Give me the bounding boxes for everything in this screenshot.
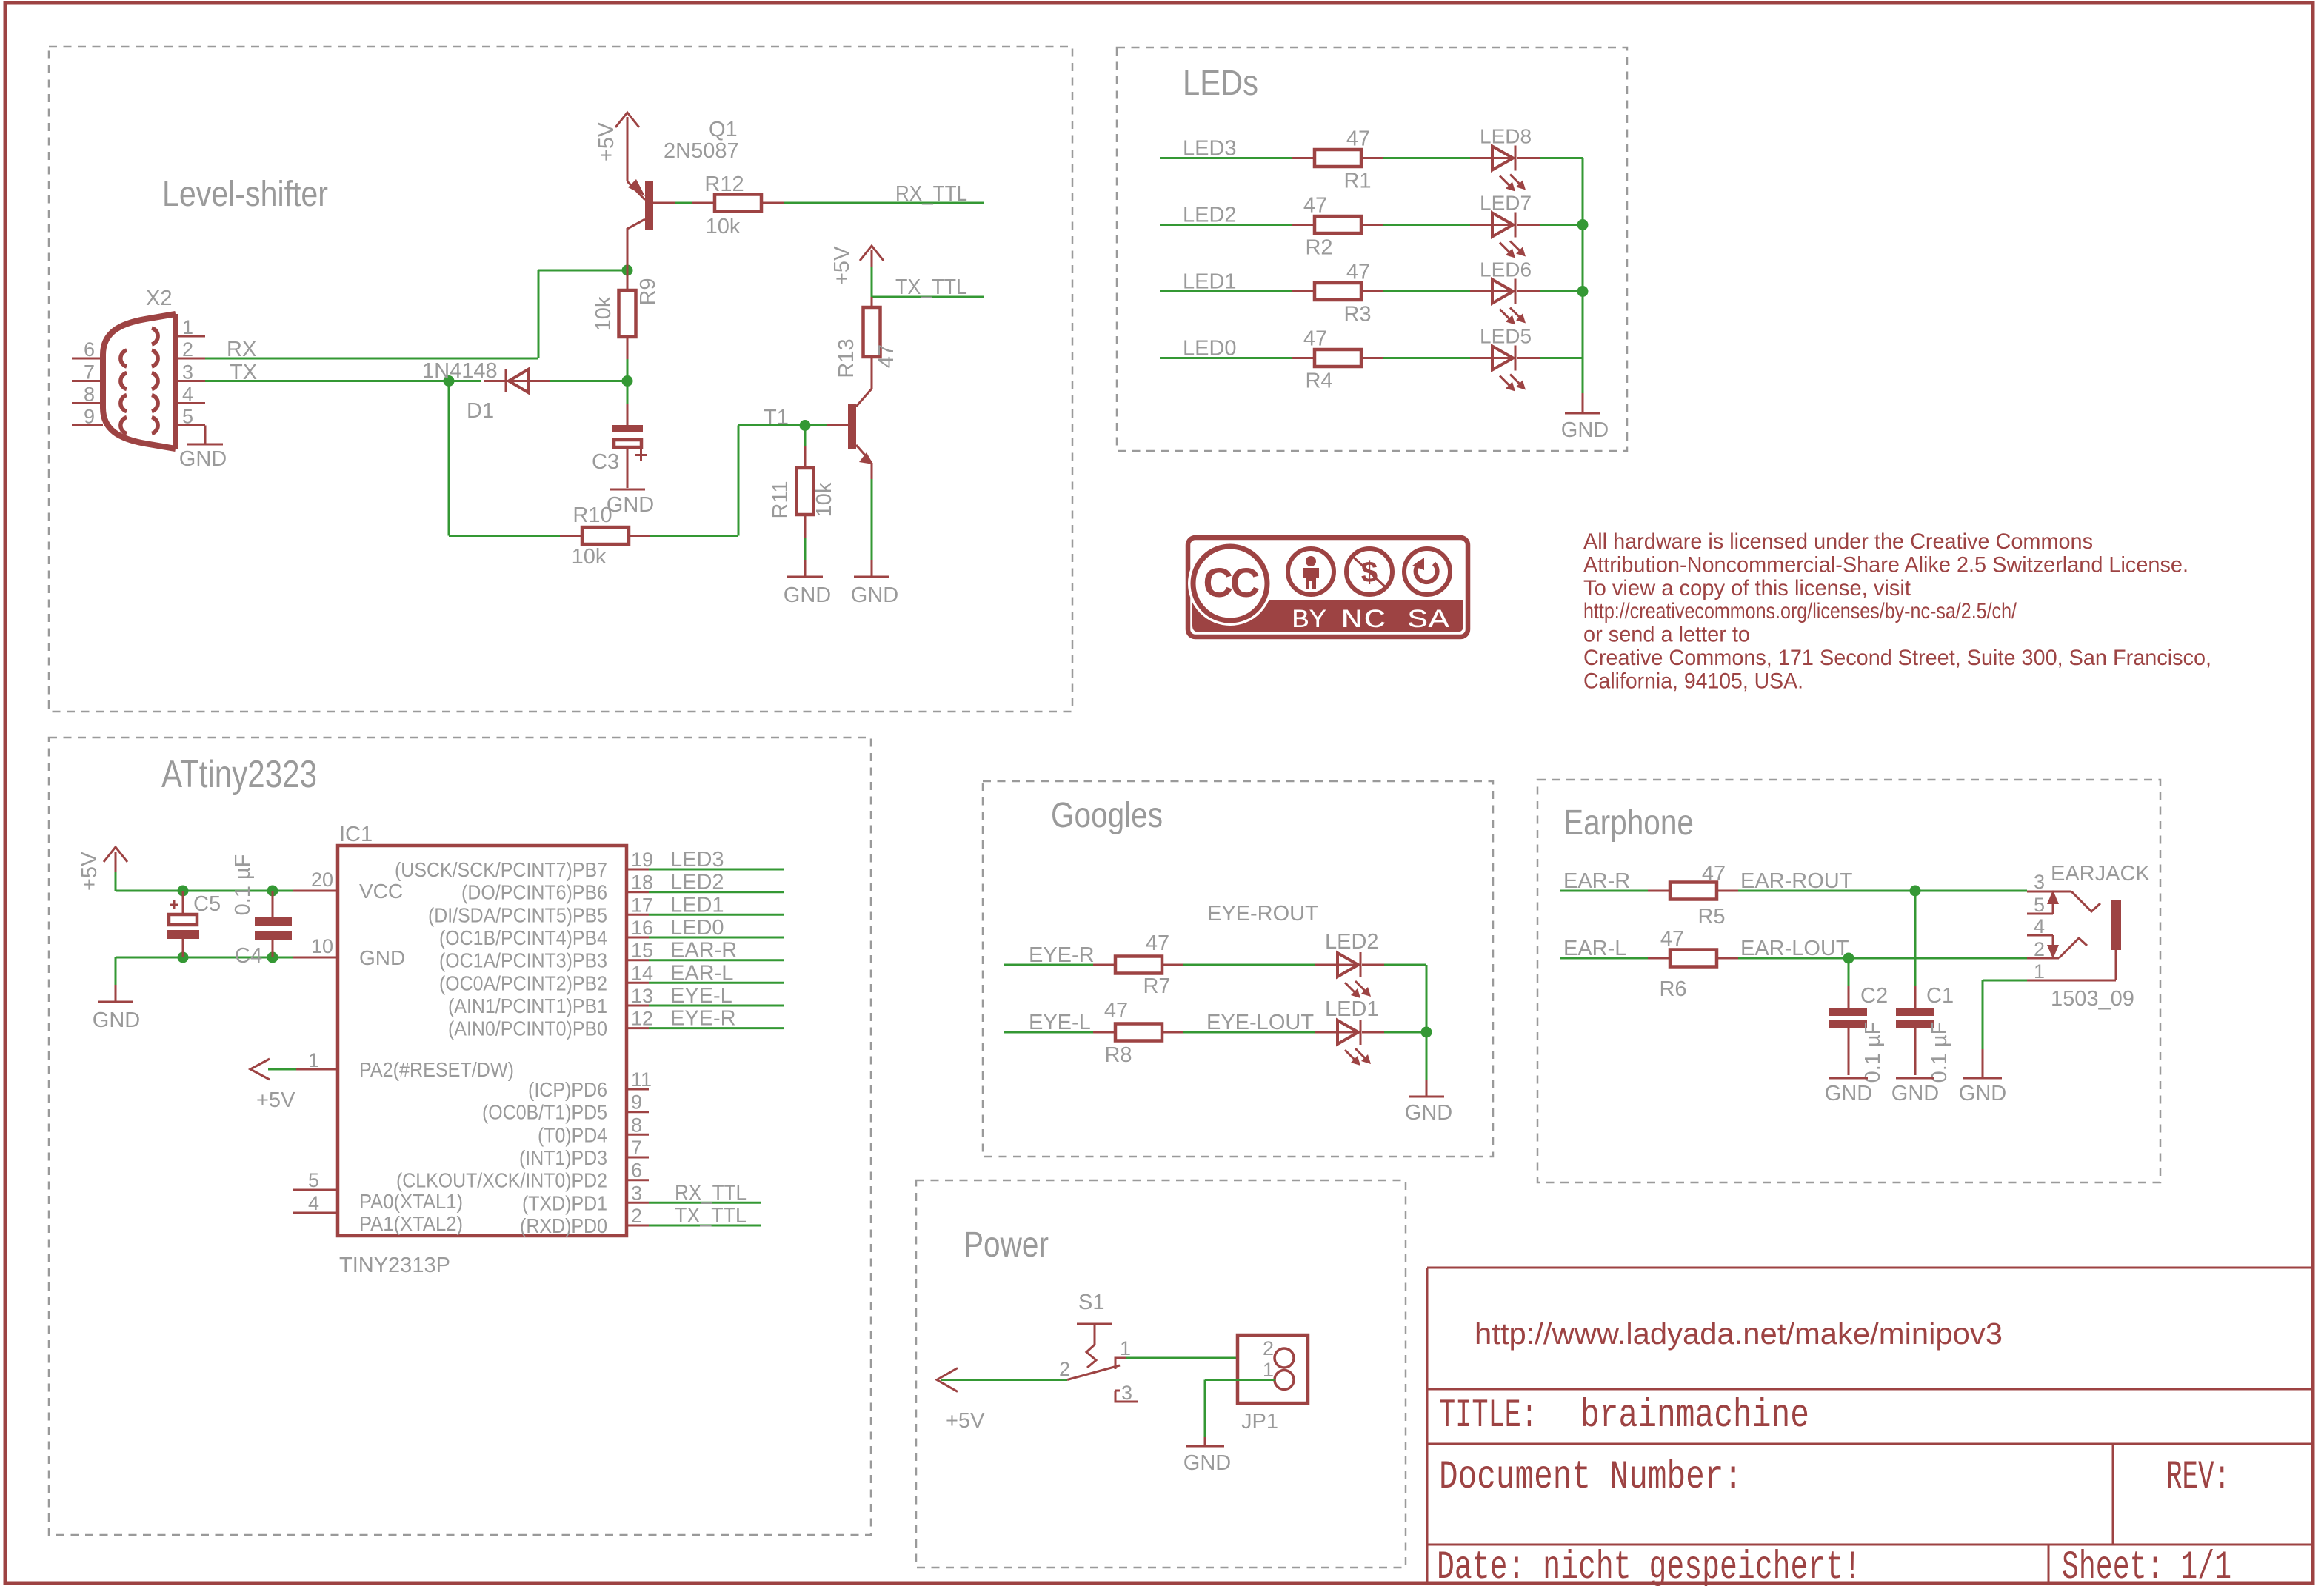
resistor R10 10k bbox=[560, 504, 650, 569]
svg-text:LED0: LED0 bbox=[1183, 337, 1237, 361]
diode D1 1N4148 bbox=[422, 359, 550, 423]
svg-text:All hardware is licensed under: All hardware is licensed under the Creat… bbox=[1583, 529, 2093, 554]
LEDs ground bbox=[1561, 393, 1609, 442]
svg-text:EAR-LOUT: EAR-LOUT bbox=[1740, 937, 1849, 960]
IC1 pin 16 (OC1B/PCINT4)PB4 bbox=[439, 916, 784, 949]
svg-text:19: 19 bbox=[631, 849, 653, 871]
svg-text:1: 1 bbox=[1263, 1359, 1274, 1381]
svg-text:LED5: LED5 bbox=[1480, 325, 1532, 348]
Creative Commons BY-NC-SA logo bbox=[1188, 538, 1468, 637]
svg-text:9: 9 bbox=[631, 1091, 642, 1114]
svg-text:RX: RX bbox=[227, 338, 256, 361]
svg-text:(CLKOUT/XCK/INT0)PD2: (CLKOUT/XCK/INT0)PD2 bbox=[396, 1169, 607, 1192]
svg-text:LED2: LED2 bbox=[1325, 930, 1379, 954]
googles ground bbox=[1405, 1032, 1452, 1125]
power +5V arrow ATtiny bbox=[78, 847, 127, 891]
svg-text:+5V: +5V bbox=[256, 1088, 295, 1112]
power +5V arrow T1 bbox=[830, 246, 884, 297]
earjack ground bbox=[1959, 1049, 2006, 1105]
svg-text:10: 10 bbox=[311, 935, 333, 957]
svg-text:EYE-R: EYE-R bbox=[670, 1007, 736, 1031]
svg-text:EYE-LOUT: EYE-LOUT bbox=[1206, 1011, 1314, 1034]
power +5V arrow bbox=[937, 1368, 1067, 1434]
svg-text:(OC1A/PCINT3)PB3: (OC1A/PCINT3)PB3 bbox=[439, 949, 607, 972]
svg-text:47: 47 bbox=[1303, 194, 1327, 218]
Level-shifter section dashed box bbox=[49, 47, 1072, 712]
resistor R4 47 bbox=[1292, 327, 1383, 393]
connector EARJACK 1503_09 bbox=[2027, 862, 2150, 1011]
svg-text:17: 17 bbox=[631, 894, 653, 916]
connector X2 DB9 bbox=[72, 287, 205, 449]
svg-text:R4: R4 bbox=[1305, 369, 1332, 393]
junction node C4 top bbox=[267, 886, 278, 897]
svg-text:C5: C5 bbox=[193, 892, 221, 916]
resistor R13 47 bbox=[835, 297, 898, 379]
svg-text:Creative Commons, 171 Second S: Creative Commons, 171 Second Street, Sui… bbox=[1583, 646, 2211, 670]
svg-text:0.1 µF: 0.1 µF bbox=[231, 854, 255, 916]
svg-text:TX_TTL: TX_TTL bbox=[895, 275, 967, 299]
LED1 bbox=[1315, 997, 1384, 1066]
svg-text:9: 9 bbox=[84, 406, 95, 428]
resistor R9 10k bbox=[592, 278, 660, 359]
title block REV bbox=[2166, 1455, 2230, 1500]
svg-text:(USCK/SCK/PCINT7)PB7: (USCK/SCK/PCINT7)PB7 bbox=[395, 858, 607, 881]
svg-text:T1: T1 bbox=[764, 406, 789, 429]
LED LED8 bbox=[1470, 125, 1540, 192]
svg-text:GND: GND bbox=[1959, 1082, 2006, 1105]
LED LED5 bbox=[1470, 325, 1540, 392]
svg-text:LED1: LED1 bbox=[1325, 997, 1379, 1021]
svg-text:2: 2 bbox=[182, 338, 193, 361]
svg-text:Googles: Googles bbox=[1051, 796, 1163, 835]
resistor R11 10k bbox=[769, 426, 836, 561]
wire D1 to R9 node bbox=[550, 380, 627, 382]
wire EYE-R net bbox=[1004, 964, 1315, 966]
IC1 pin 19 (USCK/SCK/PCINT7)PB7 bbox=[395, 848, 784, 881]
svg-text:R7: R7 bbox=[1143, 974, 1170, 998]
wire JP1 pin1 to gnd bbox=[1205, 1380, 1275, 1438]
IC1 pin 15 (OC1A/PCINT3)PB3 bbox=[439, 939, 784, 972]
svg-text:LED1: LED1 bbox=[1183, 270, 1237, 294]
svg-text:4: 4 bbox=[182, 384, 193, 406]
svg-text:7: 7 bbox=[631, 1137, 642, 1159]
junction node LED6 bus bbox=[1577, 286, 1589, 297]
IC1 pin 5 PA0 bbox=[293, 1169, 463, 1213]
power +5V arrow Q1 bbox=[595, 113, 639, 161]
wire GND rail bbox=[116, 957, 338, 985]
section title Googles bbox=[1051, 796, 1163, 835]
X2 pin5 ground bbox=[179, 426, 227, 472]
svg-text:+5V: +5V bbox=[830, 246, 854, 285]
svg-text:EYE-L: EYE-L bbox=[670, 984, 732, 1008]
C3 ground bbox=[607, 447, 654, 517]
IC1 pin 11 (ICP)PD6 bbox=[528, 1068, 652, 1101]
svg-text:R12: R12 bbox=[704, 173, 744, 196]
IC1 pin 20 VCC bbox=[311, 869, 403, 903]
svg-text:TITLE:: TITLE: bbox=[1439, 1394, 1537, 1439]
svg-text:2: 2 bbox=[631, 1205, 642, 1227]
svg-text:RX_TTL: RX_TTL bbox=[895, 182, 967, 206]
svg-text:TX_TTL: TX_TTL bbox=[675, 1204, 747, 1228]
svg-text:GND: GND bbox=[359, 946, 405, 969]
net label EYE-R bbox=[1029, 943, 1095, 967]
junction node C5 bottom bbox=[178, 952, 189, 963]
svg-text:GND: GND bbox=[607, 493, 654, 517]
svg-text:5: 5 bbox=[182, 406, 193, 428]
section title Earphone bbox=[1563, 803, 1694, 843]
IC1 pin 13 (AIN1/PCINT1)PB1 bbox=[448, 984, 784, 1017]
R11 ground bbox=[784, 560, 831, 607]
svg-text:LED3: LED3 bbox=[1183, 137, 1237, 161]
svg-text:(DO/PCINT6)PB6: (DO/PCINT6)PB6 bbox=[461, 881, 607, 904]
capacitor C4 bbox=[231, 854, 292, 968]
svg-text:LED0: LED0 bbox=[670, 916, 724, 940]
svg-text:47: 47 bbox=[1146, 931, 1169, 955]
title block URL bbox=[1475, 1317, 2003, 1351]
svg-text:6: 6 bbox=[84, 338, 95, 361]
power ground bbox=[1183, 1437, 1231, 1475]
IC1 pin 10 GND bbox=[311, 935, 405, 969]
junction node C2 top bbox=[1843, 953, 1854, 964]
svg-text:(DI/SDA/PCINT5)PB5: (DI/SDA/PCINT5)PB5 bbox=[428, 903, 607, 926]
svg-text:EARJACK: EARJACK bbox=[2051, 862, 2150, 886]
svg-text:2: 2 bbox=[2034, 938, 2045, 960]
svg-text:C1: C1 bbox=[1926, 984, 1954, 1008]
junction node googles gnd bbox=[1421, 1027, 1432, 1038]
resistor R3 47 bbox=[1292, 261, 1383, 327]
resistor R1 47 bbox=[1292, 127, 1383, 193]
svg-text:1: 1 bbox=[182, 316, 193, 338]
capacitor C5 bbox=[167, 891, 221, 957]
capacitor C2 bbox=[1829, 958, 1888, 1083]
svg-text:LED7: LED7 bbox=[1480, 192, 1532, 215]
title block Date row bbox=[1437, 1545, 1861, 1589]
svg-text:http://www.ladyada.net/make/mi: http://www.ladyada.net/make/minipov3 bbox=[1475, 1317, 2003, 1351]
junction node LED7 bus bbox=[1577, 219, 1589, 230]
junction node TX-D1 bbox=[444, 375, 455, 387]
net label RX_TTL bbox=[895, 182, 967, 206]
net label EAR-R bbox=[1563, 869, 1630, 893]
LED LED7 bbox=[1470, 192, 1540, 258]
svg-text:7: 7 bbox=[84, 361, 95, 384]
net label LED0 bbox=[1183, 337, 1237, 361]
capacitor C3 bbox=[592, 381, 647, 475]
svg-text:+5V: +5V bbox=[78, 852, 101, 891]
transistor T1 bbox=[764, 379, 873, 464]
svg-text:LED8: LED8 bbox=[1480, 125, 1532, 148]
svg-text:1: 1 bbox=[2034, 960, 2045, 983]
license text block bbox=[1583, 529, 2211, 693]
svg-text:(TXD)PD1: (TXD)PD1 bbox=[522, 1191, 607, 1214]
svg-text:12: 12 bbox=[631, 1008, 653, 1030]
IC1 pin 7 (INT1)PD3 bbox=[519, 1137, 649, 1169]
net label TX bbox=[230, 361, 257, 384]
IC1 pin 8 (T0)PD4 bbox=[538, 1114, 649, 1146]
svg-text:To view a copy of this license: To view a copy of this license, visit bbox=[1583, 576, 1911, 601]
wire LED1 to junction bbox=[1384, 1031, 1426, 1034]
svg-text:SA: SA bbox=[1407, 606, 1449, 635]
svg-text:CC: CC bbox=[1203, 559, 1259, 606]
svg-text:47: 47 bbox=[1702, 862, 1726, 886]
svg-text:R5: R5 bbox=[1697, 905, 1725, 929]
junction node T1 base bbox=[800, 420, 811, 431]
svg-text:JP1: JP1 bbox=[1241, 1410, 1278, 1434]
svg-text:PA0(XTAL1): PA0(XTAL1) bbox=[359, 1190, 463, 1213]
svg-text:EAR-L: EAR-L bbox=[1563, 937, 1626, 960]
svg-text:10k: 10k bbox=[812, 482, 836, 517]
svg-text:(AIN1/PCINT1)PB1: (AIN1/PCINT1)PB1 bbox=[448, 994, 607, 1017]
svg-text:5: 5 bbox=[308, 1169, 319, 1191]
svg-text:3: 3 bbox=[1121, 1382, 1132, 1404]
net label TX_TTL bbox=[895, 275, 967, 299]
net label RX bbox=[227, 338, 256, 361]
Earphone section dashed box bbox=[1537, 780, 2160, 1182]
svg-text:10k: 10k bbox=[706, 215, 741, 238]
svg-text:PA2(#RESET/DW): PA2(#RESET/DW) bbox=[359, 1058, 514, 1081]
svg-text:ATtiny2323: ATtiny2323 bbox=[161, 753, 317, 796]
svg-text:Earphone: Earphone bbox=[1563, 803, 1694, 843]
wire R10 to T1 base bbox=[650, 426, 805, 536]
Googles section dashed box bbox=[983, 781, 1493, 1157]
svg-text:GND: GND bbox=[784, 583, 831, 607]
LED2 bbox=[1315, 930, 1384, 998]
svg-text:47: 47 bbox=[1104, 999, 1128, 1023]
svg-text:10k: 10k bbox=[592, 296, 615, 331]
net label LED1 bbox=[1183, 270, 1237, 294]
T1 emitter ground bbox=[851, 463, 898, 607]
svg-text:GND: GND bbox=[1891, 1082, 1939, 1105]
svg-text:2N5087: 2N5087 bbox=[664, 139, 739, 163]
svg-text:15: 15 bbox=[631, 940, 653, 962]
svg-text:+5V: +5V bbox=[946, 1409, 985, 1433]
svg-text:20: 20 bbox=[311, 869, 333, 891]
svg-text:10k: 10k bbox=[572, 545, 607, 569]
svg-text:+5V: +5V bbox=[595, 122, 618, 161]
IC1 TINY2313P box bbox=[338, 823, 627, 1277]
wire EYE-L net bbox=[1004, 1031, 1315, 1034]
svg-text:Document Number:: Document Number: bbox=[1439, 1455, 1743, 1500]
svg-text:EYE-ROUT: EYE-ROUT bbox=[1207, 902, 1318, 926]
svg-text:GND: GND bbox=[93, 1008, 140, 1032]
svg-text:EAR-R: EAR-R bbox=[670, 939, 737, 963]
junction node C4 bottom bbox=[267, 952, 278, 963]
svg-text:18: 18 bbox=[631, 872, 653, 894]
svg-text:47: 47 bbox=[1346, 127, 1370, 151]
svg-text:3: 3 bbox=[631, 1182, 642, 1204]
resistor R6 47 bbox=[1648, 927, 1738, 1001]
resistor R12 10k bbox=[692, 173, 784, 238]
svg-text:4: 4 bbox=[2034, 915, 2045, 937]
svg-text:brainmachine: brainmachine bbox=[1580, 1394, 1809, 1439]
svg-text:47: 47 bbox=[1303, 327, 1327, 351]
net label EAR-LOUT bbox=[1740, 937, 1849, 960]
wire VCC rail bbox=[116, 890, 338, 892]
wire net LED1 bbox=[1160, 290, 1583, 292]
svg-text:16: 16 bbox=[631, 917, 653, 939]
ATtiny2323 section dashed box bbox=[49, 737, 871, 1535]
svg-text:PA1(XTAL2): PA1(XTAL2) bbox=[359, 1212, 463, 1235]
svg-text:R13: R13 bbox=[835, 338, 858, 378]
svg-text:R9: R9 bbox=[636, 278, 660, 305]
wire net LED2 bbox=[1160, 224, 1583, 226]
svg-text:GND: GND bbox=[1183, 1451, 1231, 1475]
svg-text:http://creativecommons.org/lic: http://creativecommons.org/licenses/by-n… bbox=[1583, 599, 2017, 623]
wire net LED0 bbox=[1160, 357, 1583, 359]
svg-text:3: 3 bbox=[2034, 871, 2045, 893]
svg-text:GND: GND bbox=[1825, 1082, 1872, 1105]
IC1 pin 12 (AIN0/PCINT0)PB0 bbox=[448, 1007, 784, 1040]
transistor Q1 2N5087 bbox=[627, 117, 739, 290]
svg-text:(INT1)PD3: (INT1)PD3 bbox=[519, 1146, 607, 1169]
svg-text:R2: R2 bbox=[1305, 236, 1332, 260]
svg-text:REV:: REV: bbox=[2166, 1455, 2230, 1500]
junction node C5 top bbox=[178, 886, 189, 897]
svg-text:X2: X2 bbox=[146, 287, 172, 310]
X2 pin numbers right 1-5 bbox=[182, 316, 193, 428]
title block Document Number row bbox=[1439, 1455, 1743, 1500]
svg-text:Sheet: 1/1: Sheet: 1/1 bbox=[2062, 1545, 2231, 1589]
wire net LED3 bbox=[1160, 157, 1583, 159]
svg-text:(T0)PD4: (T0)PD4 bbox=[538, 1123, 607, 1146]
svg-text:LED2: LED2 bbox=[1183, 204, 1237, 227]
wire LED common bus bbox=[1582, 158, 1584, 394]
resistor R2 47 bbox=[1292, 194, 1383, 260]
wire EAR-L net bbox=[1560, 957, 2027, 960]
svg-text:(OC1B/PCINT4)PB4: (OC1B/PCINT4)PB4 bbox=[439, 926, 607, 949]
svg-text:C3: C3 bbox=[592, 450, 619, 474]
section title Power bbox=[964, 1225, 1049, 1265]
svg-text:California, 94105, USA.: California, 94105, USA. bbox=[1583, 669, 1803, 693]
svg-text:Power: Power bbox=[964, 1225, 1049, 1265]
connector JP1 bbox=[1238, 1335, 1308, 1434]
svg-text:8: 8 bbox=[84, 384, 95, 406]
svg-text:TINY2313P: TINY2313P bbox=[339, 1254, 450, 1277]
svg-text:0.1 µF: 0.1 µF bbox=[1928, 1022, 1951, 1083]
svg-text:2: 2 bbox=[1059, 1358, 1070, 1380]
svg-text:LED3: LED3 bbox=[670, 848, 724, 872]
switch S1 bbox=[1059, 1291, 1138, 1404]
svg-text:EAR-L: EAR-L bbox=[670, 961, 733, 985]
title block Sheet bbox=[2062, 1545, 2231, 1589]
svg-text:2: 2 bbox=[1263, 1337, 1274, 1359]
svg-text:TX: TX bbox=[230, 361, 257, 384]
wire R9 to TX node bbox=[627, 359, 629, 381]
resistor R8 47 bbox=[1093, 999, 1183, 1067]
resistor R5 47 bbox=[1648, 862, 1738, 929]
net label LED2 bbox=[1183, 204, 1237, 227]
net label EAR-L bbox=[1563, 937, 1626, 960]
svg-text:0.1 µF: 0.1 µF bbox=[1861, 1022, 1885, 1083]
svg-text:RX_TTL: RX_TTL bbox=[675, 1181, 747, 1205]
svg-text:D1: D1 bbox=[467, 399, 494, 423]
wire LED2 to bus bbox=[1384, 965, 1426, 1032]
wire RX net bbox=[205, 270, 622, 358]
IC1 pin 14 (OC0A/PCINT2)PB2 bbox=[439, 961, 784, 994]
IC1 pin 9 (OC0B/T1)PD5 bbox=[482, 1091, 649, 1124]
wire EAR-R net bbox=[1560, 890, 2027, 892]
svg-text:EAR-R: EAR-R bbox=[1563, 869, 1630, 893]
svg-text:C4: C4 bbox=[235, 944, 262, 968]
svg-text:47: 47 bbox=[875, 344, 898, 368]
svg-text:NC: NC bbox=[1340, 606, 1386, 635]
svg-text:13: 13 bbox=[631, 985, 653, 1007]
svg-text:14: 14 bbox=[631, 962, 653, 984]
svg-text:GND: GND bbox=[1561, 418, 1609, 442]
svg-text:47: 47 bbox=[1660, 927, 1684, 951]
svg-text:Attribution-Noncommercial-Shar: Attribution-Noncommercial-Share Alike 2.… bbox=[1583, 552, 2188, 577]
title block TITLE row bbox=[1439, 1394, 1809, 1439]
IC1 pin 17 (DI/SDA/PCINT5)PB5 bbox=[428, 893, 784, 926]
junction node C3 top bbox=[622, 375, 633, 387]
svg-text:EYE-L: EYE-L bbox=[1029, 1011, 1091, 1034]
svg-text:R3: R3 bbox=[1343, 303, 1371, 327]
section title LEDs bbox=[1183, 64, 1258, 103]
junction node R9 top bbox=[622, 265, 633, 276]
junction node C1 top bbox=[1910, 886, 1921, 897]
svg-text:GND: GND bbox=[1405, 1101, 1452, 1125]
ATtiny ground symbol bbox=[93, 985, 140, 1032]
Power section dashed box bbox=[916, 1180, 1406, 1568]
IC1 pin 3 (TXD)PD1 bbox=[522, 1181, 761, 1214]
svg-text:(ICP)PD6: (ICP)PD6 bbox=[528, 1078, 607, 1101]
svg-text:S1: S1 bbox=[1078, 1291, 1104, 1314]
resistor R7 47 bbox=[1093, 931, 1183, 998]
IC1 pin 1 PA2 reset bbox=[250, 1049, 514, 1112]
LED LED6 bbox=[1470, 258, 1540, 325]
svg-text:8: 8 bbox=[631, 1114, 642, 1136]
wire TX junction to R10 bbox=[449, 381, 560, 536]
IC1 pin 18 (DO/PCINT6)PB6 bbox=[461, 871, 784, 904]
svg-text:(OC0B/T1)PD5: (OC0B/T1)PD5 bbox=[482, 1101, 607, 1124]
svg-text:LEDs: LEDs bbox=[1183, 64, 1258, 103]
C1 ground bbox=[1891, 1078, 1939, 1105]
net label LED3 bbox=[1183, 137, 1237, 161]
svg-text:R8: R8 bbox=[1104, 1043, 1132, 1067]
wire TX_TTL bbox=[872, 296, 984, 298]
svg-text:EYE-R: EYE-R bbox=[1029, 943, 1095, 967]
LEDs section dashed box bbox=[1117, 47, 1627, 451]
svg-text:11: 11 bbox=[631, 1068, 652, 1091]
svg-text:LED2: LED2 bbox=[670, 871, 724, 894]
svg-text:1503_09: 1503_09 bbox=[2051, 987, 2134, 1011]
svg-text:1: 1 bbox=[308, 1049, 319, 1071]
wire earjack sleeve to gnd bbox=[1983, 980, 2027, 1049]
wire S1 to JP1 bbox=[1126, 1357, 1275, 1359]
svg-text:47: 47 bbox=[1346, 261, 1370, 284]
IC1 pin 6 (CLKOUT/XCK/INT0)PD2 bbox=[396, 1160, 649, 1192]
svg-text:3: 3 bbox=[182, 361, 193, 384]
net label EYE-ROUT bbox=[1207, 902, 1318, 926]
IC1 pin 4 PA1 bbox=[293, 1192, 463, 1235]
wire TX net bbox=[205, 380, 481, 382]
net label EAR-ROUT bbox=[1740, 869, 1853, 893]
svg-text:LED6: LED6 bbox=[1480, 258, 1532, 281]
svg-text:(AIN0/PCINT0)PB0: (AIN0/PCINT0)PB0 bbox=[448, 1017, 607, 1040]
IC1 pin 2 (RXD)PD0 bbox=[520, 1204, 761, 1237]
svg-text:(OC0A/PCINT2)PB2: (OC0A/PCINT2)PB2 bbox=[439, 971, 607, 994]
wire base junction bbox=[805, 424, 827, 426]
net label EYE-LOUT bbox=[1206, 1011, 1314, 1034]
svg-text:R11: R11 bbox=[769, 481, 792, 518]
svg-text:Q1: Q1 bbox=[709, 118, 738, 141]
svg-text:5: 5 bbox=[2034, 894, 2045, 916]
wire RX_TTL bbox=[784, 202, 984, 204]
X2 pin numbers left 6-9 bbox=[84, 338, 95, 428]
svg-text:GND: GND bbox=[179, 447, 227, 471]
svg-text:or send a letter to: or send a letter to bbox=[1583, 623, 1750, 647]
svg-text:EAR-ROUT: EAR-ROUT bbox=[1740, 869, 1853, 893]
svg-text:R6: R6 bbox=[1659, 977, 1686, 1001]
